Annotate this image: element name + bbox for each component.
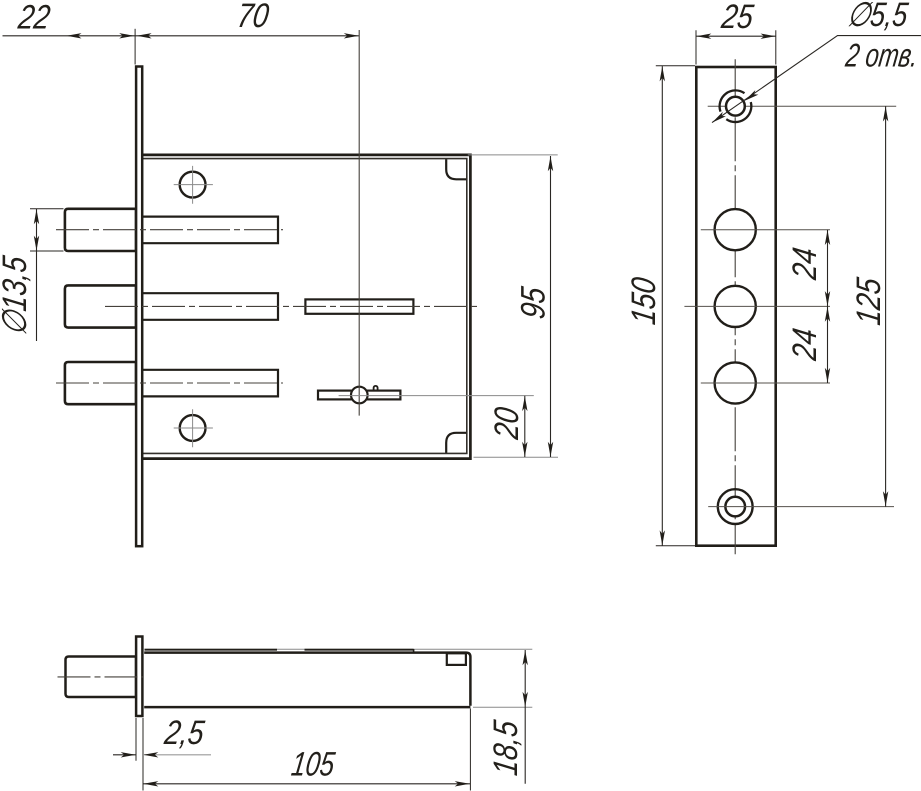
top screw hole countersink arc upper-left xyxy=(720,90,745,111)
screw hole top xyxy=(180,172,206,198)
arrow 95 top xyxy=(548,156,553,171)
middle slide slot bar xyxy=(305,299,413,313)
svg-text:2 отв.: 2 отв. xyxy=(843,38,921,74)
bottom screw hole outer circle xyxy=(718,489,753,524)
svg-text:∅13,5: ∅13,5 xyxy=(0,253,34,337)
hole circle 3 xyxy=(715,362,756,403)
18,5 bottom extension line xyxy=(473,706,532,708)
svg-text:∅5,5: ∅5,5 xyxy=(845,0,911,34)
faceplate (bottom view) xyxy=(136,637,142,717)
dia 13,5 extension lines xyxy=(30,209,64,251)
bolt 3 (bottom deadbolt, protruding left) xyxy=(65,362,136,404)
arrow 150 top xyxy=(660,66,665,81)
arrow 70 left xyxy=(137,33,152,38)
svg-text:95: 95 xyxy=(514,284,552,321)
arrow 105 right xyxy=(455,781,470,786)
bottom screw hole inner circle xyxy=(725,497,745,517)
body outline (bottom view) xyxy=(144,653,470,708)
svg-text:24: 24 xyxy=(786,245,824,282)
leader arrow at hole xyxy=(745,90,759,101)
arrow 2,5 right xyxy=(143,752,158,757)
svg-text:22: 22 xyxy=(15,0,52,36)
150 extension lines xyxy=(656,66,695,546)
top screw hole countersink arc lower-right xyxy=(726,102,751,122)
svg-text:18,5: 18,5 xyxy=(487,718,525,778)
2,5 / 105 extension line long xyxy=(142,718,144,791)
arrow 125 top xyxy=(883,107,888,122)
latch recess rectangle xyxy=(447,653,466,665)
dimension line 22 / 70 xyxy=(3,35,359,37)
svg-text:20: 20 xyxy=(488,404,526,442)
lock body outline (thick) xyxy=(142,155,470,459)
arrow 20 bottom xyxy=(522,442,527,457)
2,5 dimension tail left xyxy=(113,754,136,756)
seam end step xyxy=(413,649,415,653)
arrow 70 right xyxy=(344,33,359,38)
vertical centerline (70 axis) xyxy=(358,30,360,416)
hole 3 crosshair / 24 extension xyxy=(701,382,830,384)
arrow 25 right xyxy=(761,34,776,39)
arrow dia13,5 up xyxy=(34,209,39,224)
arrow 2,5 left xyxy=(121,752,136,757)
faceplate (edge view, vertical bar) xyxy=(136,67,142,547)
arrow 95 bottom xyxy=(548,442,553,457)
screw hole bottom xyxy=(180,415,206,441)
centerline bolt 1 xyxy=(56,229,283,231)
cover plate seam segment 2 xyxy=(305,649,414,651)
bolt 2 (middle deadbolt, protruding left) xyxy=(65,285,136,327)
hole circle 2 xyxy=(715,286,756,327)
95 dimension line xyxy=(550,156,552,457)
arrow 22 left xyxy=(67,33,82,38)
105 dimension line xyxy=(143,783,470,785)
svg-text:25: 25 xyxy=(719,0,757,36)
24 dimension line (chain) xyxy=(827,230,829,383)
arrow 150 bottom xyxy=(660,530,665,545)
screw hole bottom crosshair xyxy=(174,409,213,447)
centerline bolt 3 xyxy=(56,382,283,384)
arrow 25 left xyxy=(696,34,711,39)
svg-text:24: 24 xyxy=(786,326,824,363)
arrow 22 right xyxy=(119,33,134,38)
150 dimension line xyxy=(661,66,663,546)
bolt (bottom view) xyxy=(66,657,137,698)
125 dimension line xyxy=(885,106,887,506)
arrow 20 top xyxy=(522,396,527,411)
dimension 25 extension lines xyxy=(696,30,776,64)
20 dimension line xyxy=(524,396,526,457)
bolt 1 inner bar xyxy=(143,217,278,244)
cover plate seam segment 1 xyxy=(145,649,278,651)
2,5 dimension tail right xyxy=(143,754,211,756)
bolt 3 inner bar xyxy=(143,370,278,397)
105 right extension line xyxy=(469,709,471,791)
lock body inner cover line (thin) xyxy=(143,159,467,454)
faceplate front outline xyxy=(696,67,775,546)
svg-text:105: 105 xyxy=(289,746,337,783)
arrow 18,5 top xyxy=(523,650,528,665)
dimension line 25 xyxy=(696,35,776,37)
hole 1 crosshair / 24 extension xyxy=(701,229,830,231)
leader arrow outer xyxy=(712,112,726,123)
top-right corner post xyxy=(446,159,466,179)
arrow 24 middle down xyxy=(825,291,830,306)
hole circle 1 xyxy=(715,209,756,250)
18,5 dimension line xyxy=(524,650,526,784)
arrow 24 bottom xyxy=(825,368,830,383)
faceplate vertical centerline xyxy=(734,59,736,554)
svg-text:2,5: 2,5 xyxy=(162,714,208,752)
extension line at faceplate left xyxy=(134,29,136,65)
dia 13,5 dimension line xyxy=(36,209,38,341)
top screw hole crosshair / 125 extension xyxy=(708,105,897,107)
leader line dia 5,5 xyxy=(712,36,921,123)
key lever tab xyxy=(374,386,378,391)
2,5 extension line short xyxy=(135,718,137,761)
arrow 18,5 bottom xyxy=(523,692,528,707)
bottom hole crosshair / 125 extension xyxy=(708,506,894,508)
screw hole top crosshair xyxy=(174,166,213,204)
arrow 24 top xyxy=(825,230,830,245)
bolt 1 (top deadbolt, protruding left) xyxy=(65,209,136,251)
centerline bolt 2 xyxy=(105,305,478,307)
bolt centerline (bottom view) xyxy=(58,676,144,678)
arrow dia13,5 down xyxy=(34,236,39,251)
20 extension line (key lever axis) xyxy=(339,395,534,397)
arrow 125 bottom xyxy=(883,491,888,506)
body top thin line / 18,5 extension xyxy=(145,648,533,650)
arrow 24 middle up xyxy=(825,307,830,322)
bolt 2 inner bar xyxy=(143,293,278,320)
svg-text:150: 150 xyxy=(625,274,663,326)
key lever hub circle xyxy=(351,387,368,404)
arrow 105 left xyxy=(143,781,158,786)
svg-text:70: 70 xyxy=(235,0,272,35)
top screw hole inner circle xyxy=(726,97,745,116)
key lever bar xyxy=(318,391,400,400)
svg-text:125: 125 xyxy=(850,275,888,327)
bottom-right corner post xyxy=(446,433,466,453)
hole 2 crosshair / 24 extension xyxy=(684,305,830,307)
95 extension lines xyxy=(468,155,558,457)
